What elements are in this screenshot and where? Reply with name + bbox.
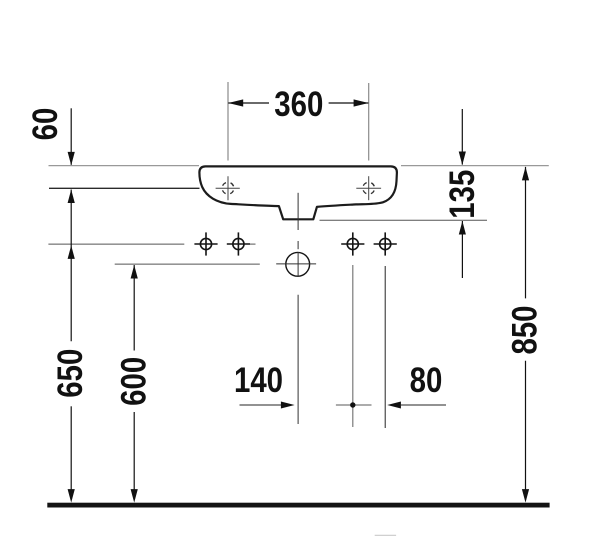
dimension 850 arrow up — [522, 167, 529, 181]
supply line right vertical — [384, 266, 386, 428]
drain axis line — [115, 263, 260, 265]
dimension 650 arrow up — [68, 245, 75, 259]
dimension 60 arrow up below rim line — [68, 190, 75, 204]
dimension 60 arrow down — [68, 152, 75, 166]
dimension 135 lower line — [461, 221, 463, 278]
dimension line through supply point — [336, 404, 372, 406]
svg-text:850: 850 — [505, 305, 544, 354]
svg-text:650: 650 — [51, 349, 90, 398]
dimension 140 arrow right — [281, 402, 295, 409]
extension line 360 left — [227, 82, 229, 161]
dimension 135 upper line — [461, 109, 463, 165]
dimension 600 arrow down — [131, 489, 138, 503]
fixing hole 3 — [341, 232, 364, 255]
tap hole left crosshair — [216, 176, 240, 200]
overflow bottom extension line — [320, 219, 488, 221]
svg-text:80: 80 — [410, 360, 443, 399]
tap hole right dashed circle — [363, 182, 375, 194]
dimension 360 arrow left — [228, 99, 243, 106]
dimension 360 arrow right — [354, 99, 369, 106]
tap hole right crosshair — [356, 176, 381, 200]
dimension 850 arrow down — [522, 489, 529, 503]
dimension 135 arrow up — [459, 221, 466, 235]
svg-text:140: 140 — [234, 360, 283, 399]
tap hole left dashed circle — [222, 182, 234, 194]
wall line right of basin — [401, 165, 549, 167]
tap hole axis line left — [49, 187, 200, 189]
dimension 135 arrow down — [459, 152, 466, 166]
dimension 600 line — [133, 265, 135, 499]
supply point dot — [350, 402, 355, 407]
dimension 60 line — [70, 108, 72, 165]
fixing hole 2 — [227, 232, 250, 255]
svg-text:360: 360 — [274, 84, 323, 123]
dimension 360 line — [228, 102, 368, 104]
vertical centre line of basin — [297, 193, 299, 424]
dimension 650 line — [70, 190, 72, 500]
svg-text:135: 135 — [442, 170, 481, 219]
basin outline — [199, 166, 397, 219]
supply line left vertical — [352, 265, 354, 427]
dimension 80 line — [401, 404, 446, 406]
svg-text:600: 600 — [114, 357, 153, 406]
drain hole circle — [286, 252, 310, 276]
dimension 140 line — [240, 404, 283, 406]
fixing hole axis line — [48, 243, 184, 245]
svg-text:60: 60 — [26, 108, 65, 141]
drain hole crosshair — [276, 252, 316, 277]
dimension 600 arrow up — [131, 265, 138, 279]
dimension 80 arrow left — [387, 402, 401, 409]
wall line left of basin — [49, 165, 200, 167]
dimension 850 line — [525, 167, 527, 500]
floor line — [47, 503, 549, 508]
extension line 360 right — [368, 83, 370, 161]
fixing hole 4 — [374, 232, 397, 255]
fixing hole axis stub — [250, 243, 256, 245]
faint partial mark bottom centre — [375, 534, 396, 536]
dimension 650 arrow down — [68, 489, 75, 503]
fixing hole 1 — [194, 232, 217, 255]
